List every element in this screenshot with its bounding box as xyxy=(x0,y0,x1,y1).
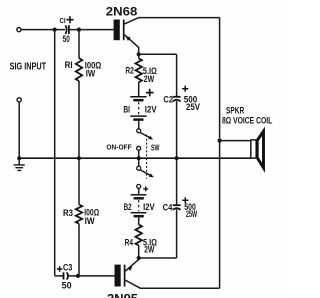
switch mechanical link xyxy=(146,135,148,179)
svg-text:2N68: 2N68 xyxy=(106,7,138,19)
svg-text:R3: R3 xyxy=(63,208,73,219)
wire: R4 to junction xyxy=(138,246,140,259)
input terminal top xyxy=(17,28,21,32)
node: top wire / left column xyxy=(53,28,57,32)
svg-text:RI: RI xyxy=(65,60,73,71)
svg-text:I2V: I2V xyxy=(145,104,157,115)
Q1 emitter xyxy=(125,35,139,55)
R1 column: wire top to R1 xyxy=(78,30,80,59)
ground xyxy=(18,158,20,164)
svg-text:C2: C2 xyxy=(163,95,173,106)
wire: B1 to switch xyxy=(138,121,140,129)
capacitor C1 xyxy=(65,25,66,34)
transistor Q2 2N95 base bar xyxy=(115,265,121,287)
battery B2 xyxy=(131,194,147,196)
svg-text:25W: 25W xyxy=(186,209,197,219)
svg-text:CI: CI xyxy=(60,16,66,25)
switch arm 1 xyxy=(140,133,150,138)
svg-text:50: 50 xyxy=(63,34,70,45)
svg-text:8Ω VOICE COIL: 8Ω VOICE COIL xyxy=(222,115,273,125)
capacitor C3 xyxy=(63,272,65,279)
svg-text:BI: BI xyxy=(123,104,130,115)
Q2 emitter arrow xyxy=(128,266,133,271)
center rail xyxy=(19,157,250,159)
plus at B2 xyxy=(143,186,148,191)
node: top wire / R1 xyxy=(77,28,81,32)
wire: contact2 to rail xyxy=(138,150,140,158)
plus C4 xyxy=(182,197,188,203)
resistor R3 xyxy=(76,205,82,224)
svg-text:B2: B2 xyxy=(124,202,132,213)
Q1 base inner line xyxy=(123,20,125,41)
svg-text:2W: 2W xyxy=(144,74,155,84)
plus C2 xyxy=(182,86,188,92)
Q1 collector xyxy=(125,18,139,24)
svg-text:IW: IW xyxy=(86,69,96,79)
svg-text:ON-OFF: ON-OFF xyxy=(106,143,132,152)
svg-text:R2: R2 xyxy=(125,66,133,77)
wire: rail to contact3 xyxy=(138,158,140,166)
wire: input to C1 xyxy=(21,29,65,31)
wire: R2 to B1 xyxy=(138,82,140,96)
svg-text:SIG INPUT: SIG INPUT xyxy=(10,61,47,72)
right rail xyxy=(219,18,221,289)
Q2 emitter xyxy=(125,258,138,271)
node: switch / rail xyxy=(137,156,141,160)
resistor R2 xyxy=(136,58,142,82)
Q2 base inner line xyxy=(124,265,126,287)
left column wire xyxy=(54,30,56,276)
node: bottom wire / R3 xyxy=(76,274,80,278)
switch contact 4 xyxy=(137,184,141,188)
speaker cone xyxy=(257,131,263,168)
wire: emitter junction to C2 column xyxy=(139,53,177,55)
svg-text:I2V: I2V xyxy=(143,202,155,213)
svg-text:SW: SW xyxy=(151,142,160,152)
switch arm 2 xyxy=(140,170,151,176)
node: R4 / emitter junction xyxy=(137,256,141,260)
wire: top rail to right xyxy=(139,17,220,19)
wire: left column corner to C3 xyxy=(55,275,64,277)
capacitor C2 xyxy=(173,96,181,98)
wire: bottom terminal to rail xyxy=(18,102,20,158)
Q1 emitter arrow xyxy=(126,36,131,41)
wire: C4 bottom to R4 junction xyxy=(139,257,177,259)
svg-text:C3: C3 xyxy=(63,262,72,272)
wire: C1 to Q1 base xyxy=(69,29,114,31)
svg-text:IW: IW xyxy=(85,216,95,226)
resistor R4 xyxy=(136,225,142,246)
svg-text:2N95: 2N95 xyxy=(107,294,139,298)
wire: C column mid xyxy=(176,101,178,205)
switch contact 2 xyxy=(137,146,141,150)
wire: emitter junction down to R2 xyxy=(138,54,140,58)
switch contact 3 xyxy=(137,166,141,170)
node: right rail / speaker xyxy=(218,139,222,143)
capacitor C4 xyxy=(173,204,181,206)
input terminal bottom xyxy=(17,98,21,102)
Q2 collector xyxy=(125,280,219,288)
wire: B2 to R4 xyxy=(138,217,140,224)
transistor Q1 2N68 base bar xyxy=(114,20,120,41)
resistor R1 xyxy=(76,58,82,81)
svg-text:25V: 25V xyxy=(186,102,200,112)
node: input / rail xyxy=(17,156,21,160)
wire: R3 to bottom wire xyxy=(78,224,80,276)
wire: rail to speaker xyxy=(220,140,251,142)
svg-text:50: 50 xyxy=(62,281,72,292)
node: R1R3 / rail xyxy=(77,156,81,160)
plus C3 xyxy=(57,266,63,272)
wire: C3 to Q2 base xyxy=(69,275,115,277)
speaker driver xyxy=(251,140,256,158)
svg-text:C4: C4 xyxy=(163,202,173,213)
battery B1 xyxy=(130,96,146,98)
wire: rail to R3 xyxy=(78,158,80,204)
plus C1 xyxy=(66,16,73,23)
node: rail / C column xyxy=(175,156,179,160)
switch contact 1 xyxy=(137,129,141,133)
wire: C column upper xyxy=(176,54,178,96)
wire: R1 to rail xyxy=(78,81,80,158)
plus B1 xyxy=(146,89,154,97)
svg-text:R4: R4 xyxy=(125,237,134,248)
wire: C column lower xyxy=(176,209,178,258)
svg-text:2W: 2W xyxy=(144,245,154,255)
node: emitter junction xyxy=(137,52,141,56)
wire: contact4 to B2 xyxy=(138,188,140,194)
